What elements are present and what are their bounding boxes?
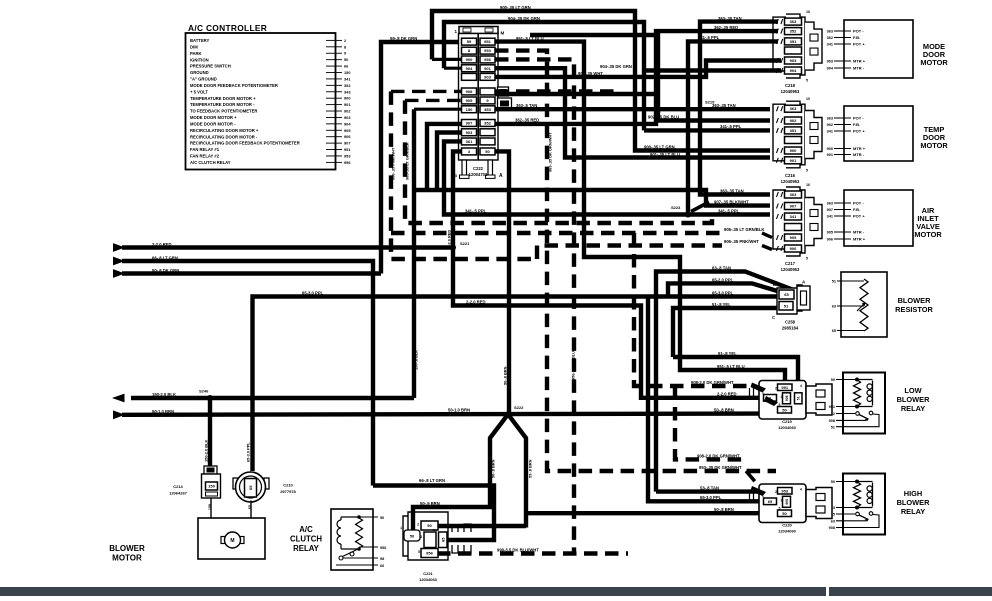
- svg-text:953: 953: [781, 488, 788, 493]
- relay switch contacts: [856, 512, 860, 516]
- svg-text:98: 98: [380, 557, 384, 561]
- svg-text:RECIRCULATING DOOR MOTOR +: RECIRCULATING DOOR MOTOR +: [190, 128, 259, 133]
- svg-text:C: C: [772, 315, 775, 320]
- svg-text:50-.8 BRN: 50-.8 BRN: [714, 407, 734, 412]
- svg-text:"A" GROUND: "A" GROUND: [190, 77, 217, 82]
- C217 plug: [805, 198, 822, 246]
- 953 entry wedge: [751, 486, 767, 496]
- svg-text:902-.35 DK BLU: 902-.35 DK BLU: [435, 157, 440, 186]
- box MODE: [844, 20, 913, 78]
- svg-text:900-.35 LT GRN: 900-.35 LT GRN: [500, 5, 531, 10]
- svg-text:4: 4: [800, 384, 802, 388]
- wire 66-.8 LT GRN entry: [113, 257, 125, 266]
- C222 pin 8 L: [462, 47, 477, 54]
- C218 pin 903: [785, 57, 802, 64]
- svg-text:5: 5: [418, 550, 420, 554]
- svg-text:MOTOR: MOTOR: [914, 230, 942, 239]
- svg-text:51-.8 YEL: 51-.8 YEL: [712, 302, 731, 307]
- svg-text:63: 63: [832, 305, 836, 309]
- wire 59-.8 DK GRN to C222 pin 59: [381, 42, 462, 274]
- wire 905-.35 LT GRN/BLK dashed: [405, 99, 461, 102]
- box TEMP: [844, 106, 913, 161]
- svg-text:341-.5 PPL: 341-.5 PPL: [718, 208, 740, 213]
- svg-text:150-.8 BLK: 150-.8 BLK: [414, 350, 419, 370]
- svg-text:900: 900: [827, 147, 833, 151]
- svg-text:963-.35 DK GRN/WHT: 963-.35 DK GRN/WHT: [548, 132, 553, 172]
- svg-text:59: 59: [467, 39, 472, 44]
- svg-text:150-2.0 BLK: 150-2.0 BLK: [204, 440, 209, 462]
- svg-text:MOTOR: MOTOR: [112, 554, 142, 563]
- wire 65-3.0 PPL to C220: [648, 297, 763, 502]
- svg-text:50: 50: [485, 149, 490, 154]
- svg-text:2-2.0 RED: 2-2.0 RED: [447, 230, 452, 248]
- svg-text:S222: S222: [514, 405, 524, 410]
- svg-text:C218: C218: [785, 83, 796, 88]
- svg-text:341: 341: [790, 214, 797, 219]
- C222 pin 903 L: [462, 129, 477, 136]
- C217 pin 907: [785, 203, 802, 210]
- svg-text:50-.8 BRN: 50-.8 BRN: [503, 366, 508, 385]
- C216 pin blank: [785, 137, 802, 144]
- wire 363-.5 TAN with S219: [495, 107, 770, 111]
- svg-text:HIGH: HIGH: [904, 489, 922, 498]
- C222 pin 3 L: [462, 148, 477, 155]
- svg-text:150: 150: [344, 70, 351, 75]
- svg-text:M: M: [230, 538, 234, 544]
- motor M: [221, 537, 229, 544]
- wire 150-2.0 BLK entry: [112, 394, 125, 403]
- connector C218 12040953: [786, 14, 805, 78]
- box AIR: [844, 190, 913, 246]
- svg-text:S221: S221: [460, 241, 470, 246]
- svg-text:53-.8 BRN: 53-.8 BRN: [528, 459, 533, 478]
- svg-text:900: 900: [466, 57, 473, 62]
- svg-text:900: 900: [790, 148, 797, 153]
- svg-text:951: 951: [781, 385, 788, 390]
- 908 entry wedge: [751, 383, 767, 393]
- svg-text:908: 908: [785, 395, 789, 401]
- svg-text:53-.8 TAN: 53-.8 TAN: [700, 485, 719, 490]
- svg-text:65: 65: [832, 329, 836, 333]
- connector C217 12040953: [786, 187, 805, 256]
- svg-text:RECIRCULATING DOOR MOTOR -: RECIRCULATING DOOR MOTOR -: [190, 134, 258, 139]
- svg-text:956: 956: [380, 546, 386, 550]
- C222 pin 9 R: [480, 97, 495, 104]
- svg-text:51-.8 YEL: 51-.8 YEL: [718, 351, 737, 356]
- svg-text:RELAY: RELAY: [293, 544, 320, 553]
- C218 plug: [805, 22, 822, 70]
- svg-text:PRESSURE SWITCH: PRESSURE SWITCH: [190, 64, 231, 69]
- svg-text:904-.35 DK GRN: 904-.35 DK GRN: [600, 64, 632, 69]
- bottom page bar: [0, 587, 992, 596]
- keying marks: [452, 524, 471, 532]
- svg-text:900-.35 LT GRN: 900-.35 LT GRN: [644, 145, 675, 150]
- svg-text:MOTOR: MOTOR: [920, 58, 948, 67]
- svg-text:POT +: POT +: [853, 129, 865, 134]
- svg-text:902: 902: [827, 123, 833, 127]
- svg-text:A/C CONTROLLER: A/C CONTROLLER: [188, 23, 267, 33]
- svg-text:C219: C219: [782, 419, 792, 424]
- svg-text:C210: C210: [283, 483, 293, 488]
- wire 2-2.0 RED entry: [113, 243, 125, 252]
- C222 pin 900 L: [462, 56, 477, 63]
- svg-text:43a: 43a: [432, 528, 437, 532]
- svg-text:+ 5 VOLT: + 5 VOLT: [190, 89, 208, 94]
- connector C210: [233, 478, 238, 489]
- svg-text:341-.5 PPL: 341-.5 PPL: [698, 35, 720, 40]
- svg-text:59-.8 DK GRN: 59-.8 DK GRN: [390, 36, 417, 41]
- junction S246: [207, 395, 213, 401]
- svg-text:908: 908: [785, 499, 789, 505]
- wire 65 to blower motor: [245, 501, 251, 541]
- svg-text:951: 951: [484, 39, 491, 44]
- svg-text:FAN RELAY #1: FAN RELAY #1: [190, 147, 220, 152]
- svg-text:C222: C222: [473, 166, 484, 171]
- svg-text:65: 65: [784, 292, 789, 297]
- svg-text:66: 66: [380, 564, 384, 568]
- connector C216 12040953: [786, 101, 805, 168]
- svg-text:907: 907: [790, 204, 797, 209]
- svg-text:A/C CLUTCH RELAY: A/C CLUTCH RELAY: [190, 160, 231, 165]
- svg-text:POT +: POT +: [853, 42, 865, 47]
- wire 953-.35 DK GRN/WHT dashed: [495, 51, 776, 471]
- C217 pin 363: [785, 191, 802, 198]
- C222 pin 905 L: [462, 97, 477, 104]
- svg-text:353: 353: [484, 107, 491, 112]
- svg-text:363: 363: [827, 202, 833, 206]
- svg-text:S223: S223: [671, 205, 681, 210]
- svg-text:12004702: 12004702: [469, 172, 488, 177]
- svg-text:341: 341: [827, 130, 833, 134]
- junction S221: [450, 245, 456, 251]
- svg-text:908-2.0 DK GRN/WHT: 908-2.0 DK GRN/WHT: [691, 380, 734, 385]
- svg-text:3: 3: [420, 535, 422, 539]
- C218 pin blank: [785, 47, 802, 54]
- clutch relay pin stubs: [359, 516, 378, 518]
- svg-text:351: 351: [790, 128, 797, 133]
- svg-text:5: 5: [806, 257, 808, 261]
- svg-text:901: 901: [790, 158, 797, 163]
- svg-text:3: 3: [781, 395, 783, 399]
- clutch relay contacts: [339, 556, 343, 560]
- svg-text:150: 150: [466, 107, 473, 112]
- svg-text:M: M: [501, 31, 505, 36]
- svg-text:902: 902: [344, 109, 351, 114]
- svg-text:904: 904: [790, 68, 797, 73]
- svg-text:363-.35 TAN: 363-.35 TAN: [712, 103, 736, 108]
- C217 pin 905: [785, 234, 802, 241]
- svg-text:C216: C216: [785, 173, 796, 178]
- relay switch contacts: [856, 412, 860, 416]
- svg-text:50: 50: [831, 378, 835, 382]
- svg-text:907: 907: [827, 208, 833, 212]
- box HIGH BLOWER RELAY: [843, 474, 885, 535]
- svg-text:5: 5: [806, 79, 808, 83]
- svg-text:951: 951: [829, 405, 835, 409]
- svg-text:12040953: 12040953: [781, 89, 800, 94]
- svg-text:50: 50: [410, 534, 415, 539]
- C218 pin 904: [785, 67, 802, 74]
- wire 906-.35 PNK/WHT dashed: [391, 90, 461, 93]
- C222 pin 59 L: [462, 38, 477, 45]
- C218 pin 352: [785, 28, 802, 35]
- svg-text:MODE DOOR FEEDBACK POTENTIOMET: MODE DOOR FEEDBACK POTENTIOMETER: [190, 83, 278, 88]
- box A/C CLUTCH RELAY: [331, 509, 373, 570]
- svg-text:RESISTOR: RESISTOR: [895, 305, 933, 314]
- svg-text:901: 901: [344, 102, 351, 107]
- svg-text:16: 16: [806, 183, 810, 187]
- svg-text:2-2.0 RED: 2-2.0 RED: [152, 242, 172, 247]
- diagonal 907 jog at S223: [691, 202, 709, 212]
- wire 907-.35 BLK/WHT via long 190 bus: [414, 190, 770, 206]
- svg-text:65: 65: [440, 537, 445, 542]
- C218 pin 363: [785, 18, 802, 25]
- C222 pin blank R: [480, 129, 495, 136]
- svg-text:901: 901: [827, 153, 833, 157]
- svg-text:TO FEEDBACK POTENTIOMETER: TO FEEDBACK POTENTIOMETER: [190, 109, 257, 114]
- svg-text:BLOWER: BLOWER: [897, 395, 931, 404]
- wire 51-.8 YEL: [673, 308, 779, 357]
- C222 pin 953 R: [480, 47, 495, 54]
- C222 pin 50 R: [480, 148, 495, 155]
- svg-text:B: B: [773, 282, 776, 287]
- svg-text:953-.35 DK GRN/WHT: 953-.35 DK GRN/WHT: [699, 465, 742, 470]
- relay coil resistor: [854, 482, 861, 508]
- box BLOWER MOTOR: [198, 518, 265, 559]
- svg-text:C221: C221: [423, 571, 433, 576]
- svg-text:908: 908: [829, 419, 835, 423]
- svg-text:65-2.0 PPL: 65-2.0 PPL: [712, 277, 734, 282]
- svg-text:S246: S246: [199, 388, 209, 393]
- svg-text:150-2.0 BLK: 150-2.0 BLK: [152, 392, 176, 397]
- svg-text:BATTERY: BATTERY: [190, 38, 210, 43]
- C222 legs and label: [462, 160, 467, 176]
- svg-text:RELAY: RELAY: [901, 404, 925, 413]
- svg-text:LOW: LOW: [904, 386, 921, 395]
- C222 pin blank L: [462, 73, 477, 80]
- wire 50-.8 DK GRN entry: [113, 269, 125, 278]
- svg-text:351: 351: [790, 39, 797, 44]
- C216 pin 902: [785, 117, 802, 124]
- svg-text:12034063: 12034063: [419, 577, 438, 582]
- svg-text:65-3.0 PPL: 65-3.0 PPL: [246, 442, 251, 462]
- svg-text:CLUTCH: CLUTCH: [290, 535, 322, 544]
- svg-text:906: 906: [827, 238, 833, 242]
- svg-text:65-3.0 PPL: 65-3.0 PPL: [700, 495, 722, 500]
- svg-text:906-.35 PNK/WHT: 906-.35 PNK/WHT: [724, 239, 759, 244]
- svg-text:50-1.0 BRN: 50-1.0 BRN: [448, 408, 470, 413]
- svg-text:BLOWER: BLOWER: [898, 296, 932, 305]
- svg-text:906: 906: [790, 246, 797, 251]
- svg-text:907-.35 BLK/WHT: 907-.35 BLK/WHT: [714, 199, 749, 204]
- svg-text:2: 2: [417, 523, 419, 527]
- C222 pin blank R: [480, 138, 495, 145]
- svg-text:903: 903: [790, 58, 797, 63]
- wire 362-.35 RED: [495, 31, 778, 124]
- wire 150 to blower motor: [211, 498, 222, 540]
- svg-text:1: 1: [400, 526, 402, 530]
- svg-text:908: 908: [829, 526, 835, 530]
- C217 pin blank: [785, 224, 802, 231]
- svg-text:50: 50: [344, 57, 348, 62]
- C222 pin 907 L: [462, 120, 477, 127]
- svg-text:2: 2: [775, 490, 777, 494]
- box LOW BLOWER RELAY: [843, 373, 885, 434]
- svg-text:POT -: POT -: [853, 201, 864, 206]
- svg-text:361: 361: [466, 139, 473, 144]
- svg-text:902: 902: [790, 118, 797, 123]
- svg-text:999-3.5 DK BLU/WHT: 999-3.5 DK BLU/WHT: [497, 547, 539, 552]
- C218 pin 351: [785, 38, 802, 45]
- relay coil winding: [872, 381, 874, 406]
- svg-text:2: 2: [775, 387, 777, 391]
- svg-text:907-.35 BLK/WHT: 907-.35 BLK/WHT: [425, 153, 430, 186]
- svg-text:908: 908: [466, 89, 473, 94]
- C216 pin 901: [785, 157, 802, 164]
- svg-text:12034060: 12034060: [778, 425, 797, 430]
- svg-text:PARK: PARK: [190, 51, 202, 56]
- wire 951-.5 LT BLU: [495, 42, 785, 384]
- svg-text:BLOWER: BLOWER: [897, 498, 931, 507]
- svg-text:C214: C214: [173, 484, 183, 489]
- C222 pin 150 L: [462, 106, 477, 113]
- svg-text:956: 956: [426, 551, 433, 556]
- svg-text:C217: C217: [785, 261, 796, 266]
- connector C222: [459, 27, 498, 34]
- C222 pin 901 R: [480, 65, 495, 72]
- wire 150-2.0 BLK down to C214: [208, 398, 212, 466]
- svg-text:953: 953: [484, 48, 491, 53]
- svg-text:TEMPERATURE DOOR MOTOR -: TEMPERATURE DOOR MOTOR -: [190, 102, 255, 107]
- junction S222: [505, 411, 511, 417]
- svg-text:65-3.0 PPL: 65-3.0 PPL: [712, 290, 734, 295]
- svg-text:GROUND: GROUND: [190, 70, 209, 75]
- svg-text:903: 903: [827, 60, 833, 64]
- svg-text:907: 907: [344, 141, 351, 146]
- svg-text:51: 51: [797, 396, 801, 400]
- svg-text:2-2.0 RED: 2-2.0 RED: [717, 392, 737, 397]
- C217 pin 341: [785, 213, 802, 220]
- svg-text:904-.35 DK GRN: 904-.35 DK GRN: [508, 16, 540, 21]
- svg-text:MTR -: MTR -: [853, 230, 865, 235]
- C222 side bump connector: [498, 87, 509, 96]
- svg-text:50-.8 BRN: 50-.8 BRN: [714, 507, 734, 512]
- svg-text:905: 905: [827, 231, 833, 235]
- svg-text:363: 363: [827, 117, 833, 121]
- svg-text:12040953: 12040953: [781, 179, 800, 184]
- svg-text:51: 51: [831, 425, 835, 429]
- junction S219: [697, 106, 703, 112]
- svg-text:MODE DOOR MOTOR -: MODE DOOR MOTOR -: [190, 121, 236, 126]
- wire 901-.35 LT BLU: [495, 68, 770, 157]
- svg-text:65-3.0 PPL: 65-3.0 PPL: [302, 290, 324, 295]
- wire 902-.35 DK BLU: [530, 35, 770, 121]
- svg-text:F.B.: F.B.: [853, 207, 860, 212]
- svg-text:343: 343: [344, 89, 351, 94]
- resistor element: [860, 279, 868, 331]
- svg-text:951-.5 LT BLU: 951-.5 LT BLU: [717, 364, 745, 369]
- svg-text:352: 352: [484, 120, 491, 125]
- svg-text:16: 16: [806, 10, 810, 14]
- svg-text:DIM: DIM: [190, 44, 198, 49]
- wire 150-.8 BLK vertical: [414, 108, 461, 111]
- svg-text:363: 363: [790, 19, 797, 24]
- svg-text:BLOWER: BLOWER: [109, 544, 145, 553]
- connector C221: [403, 512, 448, 560]
- svg-text:51: 51: [784, 303, 789, 308]
- svg-text:363: 363: [827, 30, 833, 34]
- svg-text:150: 150: [208, 484, 215, 489]
- connector C219: [759, 381, 806, 420]
- svg-text:POT -: POT -: [853, 29, 864, 34]
- svg-text:RELAY: RELAY: [901, 507, 925, 516]
- svg-text:66-.8 LT GRN: 66-.8 LT GRN: [419, 478, 445, 483]
- wire 341-.5 PPL with S223: [444, 141, 688, 214]
- svg-text:66-.8 LT GRN: 66-.8 LT GRN: [152, 255, 178, 260]
- svg-text:POT +: POT +: [853, 214, 865, 219]
- svg-text:4: 4: [800, 488, 802, 492]
- wire 65-2.0 PPL: [668, 283, 784, 296]
- svg-text:63-.8 TAN: 63-.8 TAN: [712, 265, 731, 270]
- svg-text:956: 956: [484, 57, 491, 62]
- C216 pin 363: [785, 105, 802, 112]
- svg-text:341-.5 PPL: 341-.5 PPL: [720, 124, 742, 129]
- svg-text:F.B.: F.B.: [853, 35, 860, 40]
- svg-text:FAN RELAY #2: FAN RELAY #2: [190, 154, 220, 159]
- svg-text:2-2.0 RED: 2-2.0 RED: [466, 299, 486, 304]
- wire 903-.35 WHT: [495, 61, 781, 77]
- wire 50-.8 BRN from pin 50 down to S222: [495, 151, 509, 414]
- svg-text:63: 63: [831, 519, 835, 523]
- C217 pin 906: [785, 245, 802, 252]
- svg-text:MTR -: MTR -: [853, 66, 865, 71]
- wire 66-.8 LT GRN to C221: [373, 486, 494, 541]
- wire 65-3.0 PPL long: [253, 297, 781, 472]
- relay coil winding: [872, 483, 874, 507]
- svg-text:12040953: 12040953: [781, 267, 800, 272]
- svg-text:341: 341: [827, 43, 833, 47]
- svg-text:MOTOR: MOTOR: [920, 141, 948, 150]
- C222 pin blank R: [480, 88, 495, 95]
- svg-text:905-.35 LT GRN/BLK: 905-.35 LT GRN/BLK: [724, 227, 764, 232]
- svg-text:5: 5: [806, 168, 808, 172]
- svg-text:903: 903: [484, 74, 491, 79]
- C216 plug: [805, 111, 822, 159]
- svg-text:50-.9 BRN: 50-.9 BRN: [420, 501, 440, 506]
- svg-text:12034060: 12034060: [778, 529, 797, 534]
- svg-text:65: 65: [768, 499, 773, 504]
- C222 pin 361 L: [462, 138, 477, 145]
- svg-text:10: 10: [806, 97, 810, 101]
- svg-text:POT -: POT -: [853, 116, 864, 121]
- C222 pin 951 R: [480, 38, 495, 45]
- C216 pin 900: [785, 147, 802, 154]
- svg-text:362-.35 RED: 362-.35 RED: [515, 118, 539, 123]
- C222 pin 908 L: [462, 88, 477, 95]
- svg-text:5: 5: [779, 403, 781, 407]
- C222 pin 353 R: [480, 106, 495, 113]
- svg-text:RECIRCULATING DOOR FEEDBACK PO: RECIRCULATING DOOR FEEDBACK POTENTIOMETE…: [190, 141, 300, 146]
- svg-text:2985184: 2985184: [782, 326, 799, 331]
- svg-text:2977978: 2977978: [280, 489, 296, 494]
- svg-text:MTR +: MTR +: [853, 237, 866, 242]
- C220 plug: [806, 488, 832, 519]
- svg-text:A: A: [499, 173, 503, 179]
- svg-text:C258: C258: [785, 320, 796, 325]
- svg-text:363-.35 TAN: 363-.35 TAN: [718, 16, 742, 21]
- svg-text:906-.35 PNK/WHT: 906-.35 PNK/WHT: [391, 147, 396, 180]
- svg-text:904: 904: [344, 121, 351, 126]
